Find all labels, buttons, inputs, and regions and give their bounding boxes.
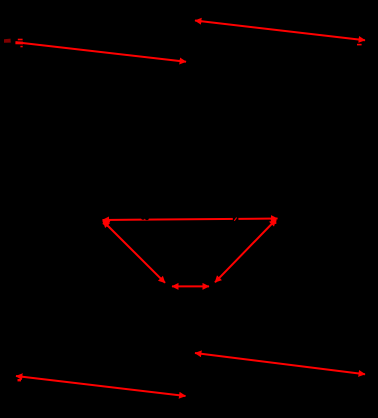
node A2 faint left tip remnant <box>4 39 11 43</box>
wire arrow A4 triangle left diagonal double arrow <box>103 221 165 283</box>
node A2 bright blob at line start <box>15 41 23 44</box>
node right vertex filler <box>271 218 277 224</box>
node A2 bright sliver above line <box>18 39 23 41</box>
wire arrow A2 top-left double arrow (left head carved by black text) <box>16 42 186 61</box>
node A2 red dot below line <box>20 46 22 48</box>
node text-notch over A3 left (two small dents) <box>141 216 145 220</box>
node text-notch over A3 right (double slash gap) <box>233 217 239 223</box>
wire arrow A1 top-right double arrow <box>195 21 365 41</box>
node text-notch over A7 left head <box>194 358 199 360</box>
node left vertex filler <box>103 220 111 228</box>
wire arrow A8 bottom-left double arrow <box>16 376 186 396</box>
wire arrow A7 bottom-right double arrow <box>195 353 365 374</box>
wire arrow A5 triangle right diagonal double arrow <box>215 220 276 283</box>
node text-notch over A1 right arrowhead <box>355 42 364 45</box>
wire arrow A6 short middle double arrow <box>172 285 209 287</box>
wire arrow A3 triangle top double arrow <box>103 219 278 221</box>
node red bit below A8 left head <box>18 379 22 381</box>
node red fragment below A1 right head <box>357 44 362 46</box>
